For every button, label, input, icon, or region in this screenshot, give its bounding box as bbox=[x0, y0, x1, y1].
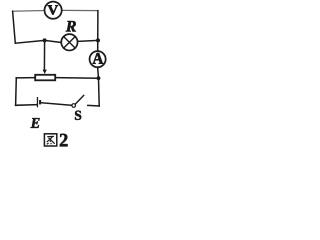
node junction dot (slider tap on middle wire) bbox=[43, 38, 47, 42]
label E (battery designator) bbox=[31, 118, 40, 128]
switch S lever bbox=[75, 95, 84, 104]
voltmeter U1 (V) bbox=[45, 2, 62, 19]
caption 图 (drawn glyph: box radical 口 with 冬 inside) bbox=[44, 134, 56, 146]
node junction dot (rheostat right lead on right vertical) bbox=[97, 76, 101, 80]
wire battery to switch pivot bbox=[41, 103, 72, 106]
wire top-right (right of voltmeter to top-right corner) bbox=[62, 9, 98, 11]
wire slider arrow stem (junction down to rheostat arrow) bbox=[43, 40, 45, 69]
rheostat (slide resistor) body bbox=[35, 75, 55, 81]
label A (ammeter letter) bbox=[93, 53, 104, 64]
wire lamp right to right vertical bbox=[78, 40, 98, 41]
wire left vertical (voltmeter left lead down to middle wire) bbox=[13, 11, 16, 43]
battery E short thick plate bbox=[39, 100, 41, 104]
wire top-left (battery+ loop top, left of voltmeter) bbox=[13, 10, 44, 13]
battery E long plate bbox=[37, 97, 38, 107]
label S (switch designator) bbox=[75, 111, 81, 120]
ammeter U2 (A) bbox=[90, 51, 106, 67]
lamp R (bulb with X) bbox=[61, 34, 77, 50]
label V (voltmeter letter) bbox=[48, 5, 59, 14]
switch S pivot circle bbox=[72, 104, 76, 108]
wire right vertical lower (ammeter to bottom-right corner) bbox=[98, 68, 100, 106]
wire left-lower vertical (rheostat left down to bottom wire) bbox=[15, 78, 18, 105]
wire middle horizontal (slider tap node to lamp left) bbox=[15, 40, 60, 43]
label R (lamp designator) bbox=[66, 21, 76, 32]
wire rheostat left lead bbox=[16, 77, 34, 79]
wire bottom-left (to battery long plate) bbox=[16, 104, 37, 107]
wire rheostat right lead to right vertical bbox=[56, 77, 99, 80]
slider arrowhead bbox=[43, 70, 47, 74]
caption digit 2 bbox=[60, 134, 68, 147]
node junction dot (lamp right / voltmeter right) bbox=[96, 38, 100, 42]
wire right vertical upper (top corner down to ammeter) bbox=[97, 11, 99, 51]
wire switch right contact to bottom-right corner bbox=[88, 104, 99, 107]
